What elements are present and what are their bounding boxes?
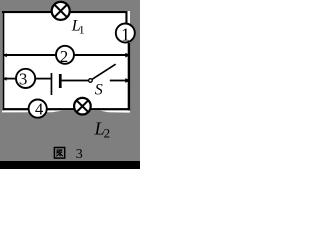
lamp L1 [52,2,70,20]
wire left vertical [2,11,4,110]
switch S hinge [89,79,93,83]
svg-text:2: 2 [104,126,111,141]
wire right upper vertical [125,11,127,24]
meter circle 2 [56,46,74,66]
black caption underline bar [0,161,140,169]
switch S blade (open) [92,64,115,79]
svg-text:3: 3 [76,147,83,162]
wire top (battery loop top) [2,11,128,13]
wire switch fixed contact to right [110,78,131,83]
label L2 [94,118,111,140]
svg-text:4: 4 [35,99,43,118]
svg-text:1: 1 [79,22,85,36]
caption glyph 图 (drawn) [54,148,64,159]
lamp L2 [74,98,91,115]
meter circle 4 [29,99,47,118]
wire right lower vertical [128,43,130,110]
meter circle 1 [116,24,135,45]
gray page background [0,0,140,169]
label L1 [71,18,85,37]
white figure area [2,11,130,113]
svg-text:2: 2 [60,47,69,66]
battery cell: long plate [51,73,53,95]
svg-text:S: S [95,81,103,98]
svg-text:3: 3 [19,69,28,88]
wire bottom [2,108,130,110]
wire middle branch (circle 2 row) [3,53,130,58]
wire short plate to switch hinge [62,80,89,82]
meter circle 3 [16,69,35,89]
battery cell: short thick plate [59,74,62,88]
svg-text:1: 1 [121,25,130,45]
wire battery row left (to circle 3 and cell) [3,77,51,81]
